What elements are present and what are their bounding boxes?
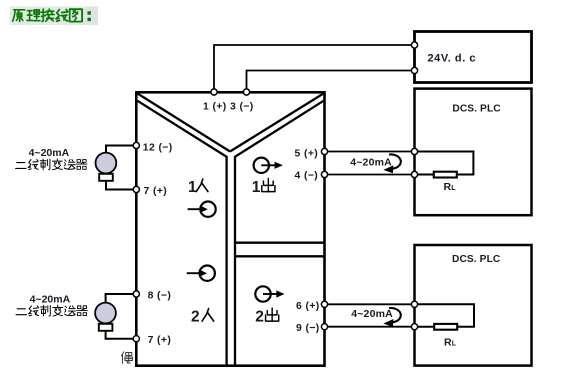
power supply box 24V.d.c	[415, 32, 532, 83]
title highlight background	[10, 7, 83, 26]
channel label 1出	[252, 178, 275, 196]
svg-text:DCS. PLC: DCS. PLC	[452, 254, 501, 265]
wire terminal 6(+) to DCS2	[326, 303, 414, 305]
terminal 6(+) right	[321, 301, 327, 307]
terminal DCS2 lower	[411, 324, 417, 330]
svg-text:9 (−): 9 (−)	[296, 323, 320, 334]
loop direction arrow upper	[383, 154, 401, 173]
svg-text:L: L	[451, 185, 456, 192]
terminal DCS1 upper	[411, 148, 417, 154]
wire terminal 5(+) to DCS1	[326, 151, 414, 153]
channel label 1入	[188, 179, 208, 196]
svg-text:4~20mA: 4~20mA	[30, 294, 71, 306]
svg-text:1 (+): 1 (+)	[203, 102, 227, 113]
terminal 12(-) left	[133, 142, 139, 148]
svg-text:1: 1	[188, 179, 197, 196]
svg-text:7 (+): 7 (+)	[148, 335, 172, 346]
isolation barrier inner-right diagonal	[230, 94, 324, 152]
svg-text:24V. d. c: 24V. d. c	[428, 53, 477, 65]
title text 原理接线图：	[13, 10, 25, 22]
svg-text:5 (+): 5 (+)	[295, 148, 319, 159]
svg-text:1: 1	[252, 179, 261, 196]
channel label 2出	[255, 308, 279, 326]
wire terminal 3(-) to 24V supply	[247, 71, 414, 92]
terminal 1(+) top	[211, 89, 217, 95]
isolation barrier inner-left diagonal	[138, 94, 231, 152]
current input symbol IN1	[188, 202, 216, 217]
wire terminal 1(+) to 24V supply	[214, 45, 414, 91]
isolation barrier outer-right diagonal and right divider line	[235, 101, 324, 365]
terminal 9(-) right	[321, 324, 327, 330]
wire inside DCS2 from 9(-) to resistor RL2	[416, 326, 435, 328]
resistor RL1	[434, 172, 457, 178]
wire inside DCS2 from 6(+) down to load	[416, 304, 475, 326]
svg-text:4~20mA: 4~20mA	[350, 156, 392, 168]
loop direction arrow lower	[383, 308, 401, 327]
DCS.PLC box lower	[415, 245, 532, 366]
stray character 偶 at block lower-left	[122, 352, 133, 363]
resistor RL2	[434, 324, 457, 330]
terminal 8(-) left	[133, 291, 139, 297]
svg-text:2: 2	[191, 309, 200, 326]
svg-text:6 (+): 6 (+)	[296, 301, 320, 312]
label 二线制变送器 (T1)	[16, 159, 87, 170]
svg-text:4~20mA: 4~20mA	[29, 147, 70, 159]
svg-text:2: 2	[255, 309, 264, 326]
wire inside DCS1 from 5(+) down to load	[416, 152, 474, 175]
wire terminal 9(-) to DCS2	[326, 326, 414, 328]
svg-text:4 (−): 4 (−)	[295, 171, 319, 182]
wire transmitter T1 bottom to terminal 7(+)	[106, 180, 135, 190]
current output symbol OUT2	[255, 286, 284, 301]
wire transmitter T1 top to terminal 12(-)	[106, 146, 135, 154]
svg-text:DCS. PLC: DCS. PLC	[452, 103, 501, 114]
channel separator line (top of OUT2 section)	[236, 255, 324, 257]
wire terminal 4(-) to DCS1	[326, 174, 414, 176]
terminal DCS1 lower	[411, 171, 417, 177]
isolator block outline	[136, 92, 324, 365]
svg-text:12 (−): 12 (−)	[143, 142, 173, 153]
terminal 7(+) left lower	[133, 336, 139, 342]
svg-text:8 (−): 8 (−)	[148, 291, 172, 302]
terminal DCS2 upper	[411, 301, 417, 307]
terminal 7(+) left upper	[133, 186, 139, 192]
transmitter T1 (4~20mA two-wire) symbol	[96, 153, 117, 181]
wire transmitter T2 top to terminal 8(-)	[106, 294, 135, 304]
terminal 24V supply lower	[411, 67, 417, 73]
terminal 5(+) right	[321, 148, 327, 154]
wire inside DCS1 from 4(-) to resistor RL1	[416, 174, 435, 176]
svg-text:L: L	[452, 340, 457, 347]
channel separator line (bottom of OUT1 section)	[236, 242, 324, 244]
svg-text:4~20mA: 4~20mA	[351, 308, 393, 320]
transmitter T2 (4~20mA two-wire) symbol	[95, 303, 116, 331]
terminal 3(-) top	[243, 89, 249, 95]
svg-text:7 (+): 7 (+)	[144, 186, 168, 197]
label 二线制变送器 (T2)	[16, 305, 87, 316]
isolation barrier outer-left diagonal and left divider line	[138, 101, 227, 365]
current input symbol IN2	[187, 266, 215, 281]
DCS.PLC box upper	[415, 89, 532, 216]
channel label 2入	[191, 309, 214, 326]
current output symbol OUT1	[254, 158, 283, 173]
wire transmitter T2 bottom to terminal 7(+) lower	[106, 330, 135, 339]
svg-text:3 (−): 3 (−)	[230, 102, 254, 113]
terminal 4(-) right	[321, 171, 327, 177]
terminal 24V supply upper	[411, 42, 417, 48]
